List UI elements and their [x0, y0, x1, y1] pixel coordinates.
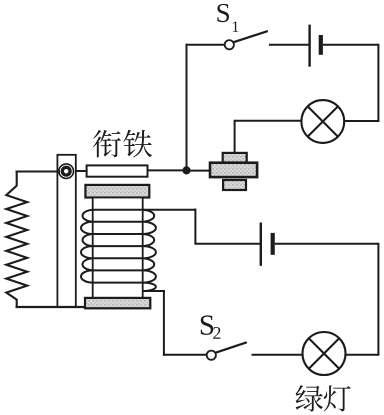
lever arm (vertical support) [57, 155, 75, 307]
wire down to contact [234, 120, 236, 154]
electromagnet bottom cap [85, 298, 150, 308]
wire down [194, 209, 196, 244]
wire to lamp L1 [344, 120, 379, 122]
junction node [182, 166, 190, 174]
wire to lamp L2 [345, 354, 379, 356]
wire junction to contact [187, 170, 211, 172]
wire from S1 to battery B1 [269, 44, 309, 46]
switch S1 [225, 40, 234, 49]
coil winding [81, 210, 156, 291]
electromagnet top cap [85, 185, 149, 198]
wire lamp L1 to contact [235, 120, 302, 122]
armature bar [87, 165, 148, 176]
wire lamp L2 to S2 [252, 354, 303, 356]
wire right vertical bottom [377, 243, 379, 355]
wire to battery B2 [194, 243, 259, 245]
lamp L1 [301, 100, 344, 143]
wire bottom [16, 306, 89, 308]
wire armature to junction [147, 169, 187, 171]
wire coil bottom terminal [143, 290, 165, 292]
label 绿灯 [296, 385, 351, 412]
contact (stationary contact block) [210, 153, 257, 190]
lamp L2 (green lamp) [303, 332, 346, 375]
label S1 [217, 4, 238, 32]
pivot bearing [59, 164, 74, 179]
wire battery B1 to right edge [323, 44, 379, 46]
wire S2 left [163, 354, 207, 356]
label S2 [201, 315, 221, 338]
spring [6, 171, 27, 309]
wire horizontal to S1 [186, 44, 225, 46]
wire right vertical top [377, 44, 379, 121]
battery B1 [308, 25, 310, 67]
wire vertical from S1 to junction [186, 44, 188, 171]
wire pivot to armature [72, 170, 88, 172]
wire battery B2 to right edge [275, 243, 379, 245]
switch S2 [216, 343, 246, 353]
wire coil top terminal [93, 209, 196, 211]
wire vertical to coil bottom [163, 291, 165, 356]
electromagnet core [93, 198, 143, 298]
battery B2 [260, 223, 262, 266]
label armature 衔铁 [93, 130, 152, 158]
wire left to spring [16, 171, 61, 173]
